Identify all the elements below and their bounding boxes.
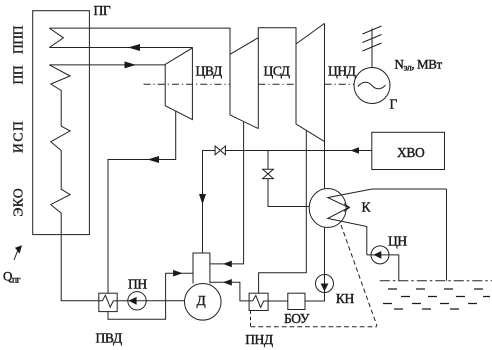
svg-text:КН: КН [336, 291, 355, 306]
svg-text:ЦНД: ЦНД [328, 64, 356, 79]
svg-text:ЦВД: ЦВД [196, 64, 222, 79]
svg-text:ПГ: ПГ [94, 3, 111, 18]
svg-text:ИСП: ИСП [11, 120, 26, 153]
svg-text:Г: Г [390, 97, 398, 112]
svg-text:ЭКО: ЭКО [11, 188, 26, 217]
svg-text:ЦСД: ЦСД [264, 64, 290, 79]
svg-text:Nэл, МВт: Nэл, МВт [395, 57, 443, 74]
svg-text:ПП: ПП [11, 65, 26, 84]
svg-text:ПВД: ПВД [96, 330, 122, 345]
svg-text:К: К [362, 200, 372, 215]
svg-text:ХВО: ХВО [397, 145, 425, 160]
svg-text:Qпг: Qпг [3, 268, 21, 285]
svg-text:Д: Д [197, 293, 206, 308]
svg-text:БОУ: БОУ [284, 311, 310, 326]
svg-text:ППП: ППП [11, 25, 26, 54]
svg-text:ЦН: ЦН [388, 234, 407, 249]
svg-text:ПНД: ПНД [245, 332, 273, 347]
svg-text:ПН: ПН [128, 277, 147, 292]
